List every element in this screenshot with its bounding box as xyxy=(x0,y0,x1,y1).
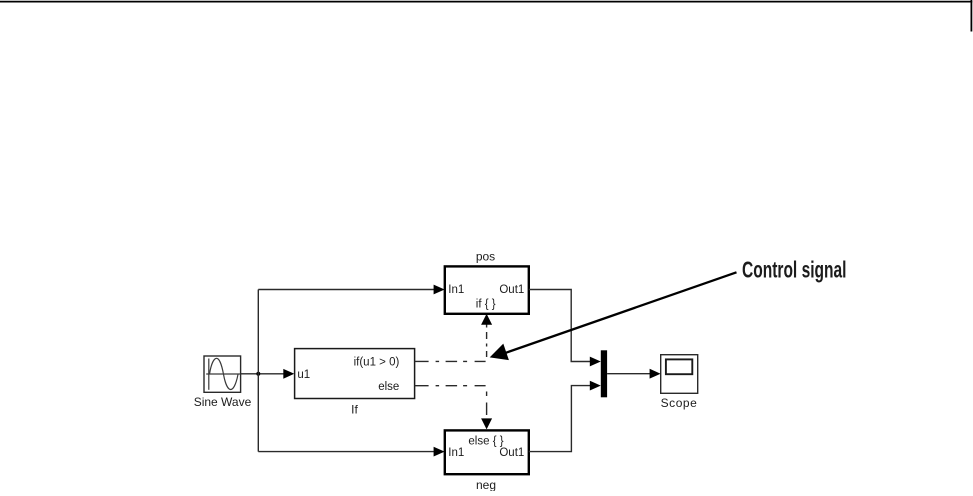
svg-text:Out1: Out1 xyxy=(499,447,524,459)
svg-text:else { }: else { } xyxy=(468,436,503,448)
svg-text:Control signal: Control signal xyxy=(742,257,847,283)
svg-text:Sine Wave: Sine Wave xyxy=(194,395,252,409)
svg-text:else: else xyxy=(378,381,399,393)
svg-text:Scope: Scope xyxy=(661,396,698,410)
svg-text:pos: pos xyxy=(476,249,495,263)
svg-text:In1: In1 xyxy=(448,284,464,296)
svg-text:if(u1 > 0): if(u1 > 0) xyxy=(354,356,400,368)
svg-text:Out1: Out1 xyxy=(499,284,524,296)
svg-text:In1: In1 xyxy=(448,447,464,459)
svg-text:neg: neg xyxy=(476,478,496,491)
svg-text:if { }: if { } xyxy=(476,298,496,310)
svg-text:u1: u1 xyxy=(297,369,310,381)
svg-text:If: If xyxy=(351,403,358,417)
